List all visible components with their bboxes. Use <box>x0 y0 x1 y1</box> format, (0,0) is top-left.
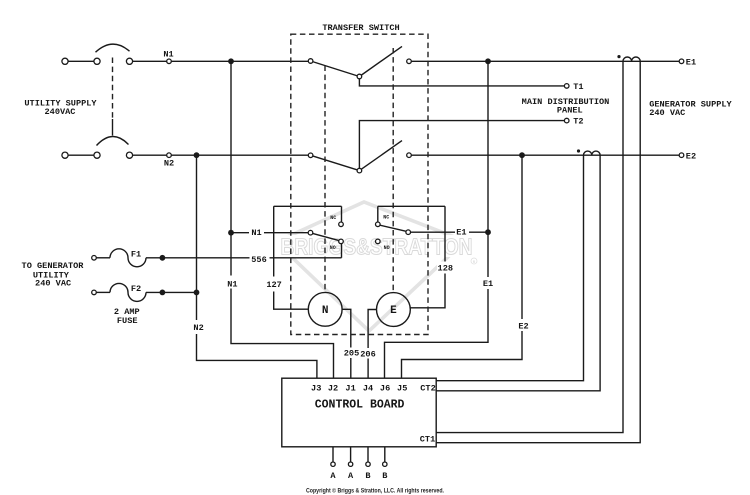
svg-text:TRANSFER SWITCH: TRANSFER SWITCH <box>322 23 399 33</box>
svg-text:E2: E2 <box>686 151 696 161</box>
svg-text:BRIGGS&STRATTON: BRIGGS&STRATTON <box>281 234 473 260</box>
svg-text:240 VAC: 240 VAC <box>35 278 71 288</box>
svg-text:J5: J5 <box>397 383 407 393</box>
svg-text:B: B <box>382 471 387 481</box>
svg-text:N2: N2 <box>164 159 174 169</box>
svg-text:J1: J1 <box>345 383 355 393</box>
svg-text:B: B <box>365 471 370 481</box>
svg-text:E1: E1 <box>686 57 696 67</box>
svg-text:CT2: CT2 <box>420 384 435 394</box>
svg-text:205: 205 <box>344 349 359 359</box>
svg-text:N1: N1 <box>227 280 237 290</box>
svg-text:E1: E1 <box>483 279 493 289</box>
svg-text:Copyright © Briggs & Stratton,: Copyright © Briggs & Stratton, LLC. All … <box>306 487 444 495</box>
svg-text:CONTROL BOARD: CONTROL BOARD <box>315 399 405 412</box>
svg-text:N1: N1 <box>163 50 173 60</box>
svg-text:CT1: CT1 <box>420 435 435 445</box>
svg-text:PANEL: PANEL <box>557 105 583 115</box>
svg-text:J3: J3 <box>311 383 321 393</box>
svg-text:206: 206 <box>360 349 375 359</box>
svg-text:NC: NC <box>330 215 336 221</box>
svg-text:127: 127 <box>266 280 281 290</box>
svg-text:128: 128 <box>438 263 453 273</box>
svg-text:A: A <box>330 471 336 481</box>
svg-text:E1: E1 <box>456 228 466 238</box>
svg-text:NC: NC <box>383 214 389 220</box>
svg-text:E: E <box>390 305 397 317</box>
svg-text:T2: T2 <box>573 117 583 127</box>
svg-text:J6: J6 <box>380 383 390 393</box>
svg-text:240 VAC: 240 VAC <box>649 108 685 118</box>
svg-text:J2: J2 <box>328 383 338 393</box>
svg-text:N: N <box>322 305 329 317</box>
svg-text:NO: NO <box>384 245 390 251</box>
svg-text:J4: J4 <box>363 383 373 393</box>
svg-text:N1: N1 <box>251 228 261 238</box>
svg-text:F1: F1 <box>131 250 141 260</box>
svg-text:E2: E2 <box>518 321 528 331</box>
svg-text:F2: F2 <box>131 284 141 294</box>
svg-text:T1: T1 <box>573 82 583 92</box>
svg-text:NO: NO <box>330 245 336 251</box>
svg-text:FUSE: FUSE <box>117 316 138 326</box>
svg-text:N2: N2 <box>193 323 203 333</box>
svg-text:A: A <box>348 471 354 481</box>
svg-text:556: 556 <box>251 255 266 265</box>
svg-text:240VAC: 240VAC <box>45 107 76 117</box>
